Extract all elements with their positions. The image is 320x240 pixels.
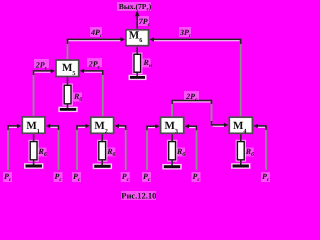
svg-text:Рис.12.10: Рис.12.10 — [121, 190, 156, 200]
